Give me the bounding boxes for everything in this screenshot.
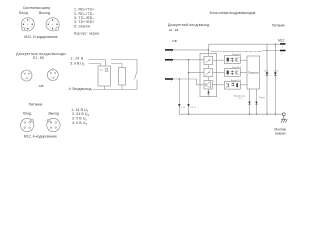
svg-text:2: 2 [31, 120, 32, 122]
wire O1 to processor [240, 59, 247, 61]
svg-text:Корпус: экран: Корпус: экран [74, 32, 99, 36]
svg-text:3: 3 [25, 28, 26, 30]
svg-text:1: 1 [282, 46, 283, 48]
svg-text:3: 3 [50, 28, 51, 30]
optocoupler O1 [224, 56, 240, 64]
svg-text:0 В: 0 В [181, 107, 185, 109]
svg-text:24 В: 24 В [264, 70, 269, 72]
load bottom stub [121, 85, 123, 90]
junction [188, 114, 189, 115]
branch to driver [197, 79, 205, 85]
svg-text:Блок-схема входов/выходов: Блок-схема входов/выходов [210, 11, 256, 15]
bus 24V [209, 44, 280, 56]
keyway notch top-left [47, 119, 50, 122]
connector E-in (M8 face view) [21, 70, 32, 81]
wire F2 to opto2 [213, 71, 225, 73]
svg-text:3: 3 [51, 78, 52, 80]
svg-text:4: 4 [49, 71, 50, 73]
svg-text:1: 1 [23, 72, 24, 74]
svg-text:А/В: А/В [39, 84, 44, 88]
keyway notch bottom-left [22, 28, 25, 31]
junction [208, 49, 209, 50]
filter F1 [204, 56, 213, 64]
keyway notch top-right [31, 119, 34, 122]
svg-text:Выход: Выход [39, 11, 50, 15]
current arrow [178, 104, 181, 106]
wire: 0V to sensor [89, 64, 101, 67]
connector X2 (Выход, M12 D-coded, face view) [46, 18, 59, 31]
svg-text:Вход: Вход [23, 112, 31, 116]
wire: 0V branch to load [111, 64, 122, 68]
svg-text:Процессор: Процессор [248, 71, 259, 75]
svg-text:5: Земля: 5: Земля [74, 24, 90, 28]
wire: 24V branch to switch [111, 60, 137, 72]
connector X1 (Вход, M12 D-coded, face view) [21, 18, 34, 31]
svg-text:3: 3 [48, 129, 49, 131]
wire F2 to driver [208, 77, 210, 81]
svg-text:Питание: Питание [29, 102, 43, 106]
wire from L2 [173, 60, 204, 114]
terminal circle [282, 113, 285, 116]
svg-text:1: 1 [56, 71, 57, 73]
protection diode D1 [249, 89, 251, 114]
svg-text:Питание: Питание [272, 23, 285, 27]
protection diode D2 [255, 89, 257, 114]
pin list of power connectors [71, 108, 89, 126]
svg-text:М12, А-кодирование: М12, А-кодирование [24, 135, 57, 139]
wire F1 to opto1 [213, 59, 225, 61]
svg-text:1: 1 [22, 120, 23, 122]
wire: common I/O line [93, 89, 138, 91]
processor U10 [247, 56, 260, 89]
connector power-in (M12 A-coded) [21, 118, 34, 131]
optocoupler O2 [224, 69, 240, 77]
svg-text:2: 2 [56, 27, 57, 29]
svg-text:3: 0 В US: 3: 0 В US [70, 62, 85, 67]
svg-text:24 В: 24 В [190, 107, 196, 109]
driver U3 (triangle, output) [204, 81, 213, 89]
terminal bar R1 [280, 43, 286, 45]
module enclosure box [200, 54, 217, 97]
wire from L3 [173, 79, 197, 114]
svg-text:1: 1 [57, 120, 58, 122]
load resistor [119, 68, 126, 86]
svg-text:Защита от перенапряжения и фил: Защита от перенапряжения и фильтр вх./вы… [211, 50, 263, 53]
svg-text:4: 4 [24, 21, 25, 23]
sensor output stub [103, 86, 105, 90]
chassis ground [281, 116, 287, 123]
terminal bar L2 [165, 59, 173, 61]
connector power-out (M12 A-coded, keyway top) [47, 118, 60, 131]
junction [179, 78, 180, 79]
wire F1 to F2 [208, 65, 210, 69]
wire: 24V to sensor [89, 60, 106, 67]
current arrow [187, 104, 190, 106]
svg-text:4: 0 В UA: 4: 0 В UA [72, 121, 87, 126]
wire O2 to processor [240, 71, 247, 73]
svg-text:3: 3 [25, 79, 26, 81]
connector E-out (M8 face view) [47, 69, 58, 81]
svg-text:3: 3 [282, 53, 283, 55]
terminal bar L3 [165, 78, 173, 80]
svg-text:3: 3 [171, 81, 172, 83]
wire driver to opto3 [213, 84, 225, 86]
svg-text:Защита: Защита [259, 97, 265, 99]
pin list of system bus connectors [74, 8, 99, 36]
keyway notch bottom-right [56, 28, 59, 31]
wire O3 to processor [240, 84, 247, 86]
switch contact [134, 72, 137, 90]
branch to filter F2 [189, 72, 205, 74]
svg-text:4: 4 [49, 21, 50, 23]
svg-text:1: 1 [54, 21, 55, 23]
filter F2 [204, 68, 213, 76]
sensor box [98, 66, 111, 86]
svg-text:Выход: Выход [48, 112, 58, 116]
svg-text:4: 4 [57, 129, 58, 131]
optocoupler O3 [224, 81, 240, 89]
junction [188, 72, 189, 73]
wire from L1 [173, 49, 209, 51]
svg-text:Системная шина: Системная шина [23, 6, 51, 10]
wire to R2 [262, 50, 280, 52]
LED indicator under driver [208, 89, 210, 91]
svg-text:заземл.: заземл. [275, 132, 286, 136]
terminal bar L1 [165, 49, 173, 51]
svg-text:1: 1 [29, 21, 30, 23]
ground bus [179, 113, 282, 115]
svg-text:4: Вход/выход: 4: Вход/выход [69, 87, 92, 91]
svg-text:2: 2 [31, 27, 32, 29]
svg-text:А/В: А/В [172, 39, 177, 43]
svg-text:Е1 - Е8: Е1 - Е8 [169, 28, 179, 32]
keyway notch top [52, 69, 54, 71]
svg-text:24 В: 24 В [273, 70, 278, 72]
junction [188, 59, 189, 60]
svg-text:2: 2 [48, 120, 49, 122]
svg-text:1: 1 [171, 52, 172, 54]
terminal bar R2 [280, 50, 286, 52]
svg-text:4: 4 [22, 129, 23, 131]
svg-text:Вход: Вход [19, 11, 28, 15]
svg-text:4: 4 [171, 62, 172, 64]
svg-text:М12, D-кодирование: М12, D-кодирование [24, 35, 57, 39]
svg-text:М12: М12 [278, 39, 285, 43]
svg-text:Дискретный вход/выход: Дискретный вход/выход [168, 23, 209, 27]
svg-text:3: 3 [31, 129, 32, 131]
svg-text:1: 24 В: 1: 24 В [70, 57, 84, 61]
svg-text:4: 4 [30, 72, 31, 74]
svg-text:Е1 - Е8: Е1 - Е8 [33, 56, 44, 60]
